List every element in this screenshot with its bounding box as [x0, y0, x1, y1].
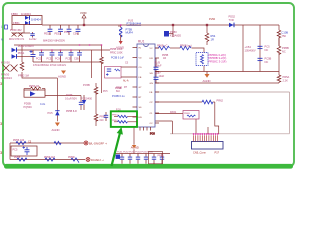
wire right bottom bus [155, 71, 279, 73]
svg-text:684/250V 684/250V: 684/250V 684/250V [43, 40, 65, 43]
connector via dots [193, 133, 219, 135]
wire pr54 top [206, 25, 208, 33]
node J1 [83, 24, 85, 26]
diode PD50 [12, 48, 18, 53]
wire pr62 step drop [215, 102, 219, 134]
border bottom band [4, 164, 293, 169]
svg-text:PC61 PC62 PC63 PC64 PC65 PC66: PC61 PC62 PC63 PC64 PC65 PC66 [117, 152, 154, 154]
ground AGND lower-left [52, 123, 60, 132]
svg-text:P1?: P1? [215, 151, 220, 155]
svg-text:NC: NC [282, 49, 286, 53]
wire transformer top [118, 25, 120, 27]
wire ic right caps vert [155, 58, 157, 67]
wire left vertical [21, 45, 23, 62]
svg-text:PR58: PR58 [14, 156, 21, 159]
svg-text:PE53: PE53 [55, 33, 62, 36]
capacitor PC60 square [116, 155, 120, 159]
wire ic right rail y92 [155, 91, 290, 93]
diode D51 [25, 21, 30, 25]
svg-text:1N4003: 1N4003 [21, 12, 31, 16]
diode D50 [25, 16, 30, 20]
resistor PR54 vertical [205, 33, 209, 41]
IC right pins [155, 48, 159, 123]
svg-text:PC54: PC54 [55, 57, 62, 60]
svg-text:2.2K: 2.2K [283, 78, 289, 82]
svg-text:PD50 1N4007: PD50 1N4007 [18, 44, 35, 48]
resistor PR5C vertical [277, 46, 281, 54]
svg-text:1u/2kv: 1u/2kv [29, 38, 37, 41]
wire top rail right corner down [278, 25, 280, 30]
resistor PR55 vertical [94, 87, 98, 94]
svg-text:PQ50: PQ50 [170, 30, 177, 34]
svg-text:1N5404: 1N5404 [31, 17, 41, 21]
svg-text:PC53: PC53 [47, 57, 54, 60]
svg-text:EN: EN [139, 117, 142, 119]
electrolytic box PC5x [11, 146, 37, 156]
svg-text:PC50 452: PC50 452 [10, 28, 22, 32]
svg-text:SN: SN [150, 73, 153, 75]
wire stub x208 [207, 127, 209, 134]
connector CN51 body [192, 142, 224, 150]
svg-text:100uF: 100uF [155, 64, 163, 67]
IC left pin labels column [103, 63, 129, 94]
svg-text:VD: VD [139, 58, 142, 60]
net DC/ADJ [86, 158, 104, 163]
wire block bottom edge [170, 133, 290, 135]
svg-text:PC55: PC55 [66, 57, 73, 60]
wire pr54 bottom [206, 41, 208, 45]
wire x60 down [56, 78, 58, 111]
svg-text:C5B: C5B [74, 57, 79, 60]
varistor MOV X symbol [3, 65, 18, 72]
diode PD6 [82, 100, 86, 104]
capacitor PC59 [154, 77, 159, 79]
svg-text:PD5B: PD5B [24, 102, 31, 106]
svg-text:PC6: PC6 [150, 133, 155, 136]
capacitor PC50 plus [30, 50, 36, 62]
svg-text:+C54: +C54 [245, 45, 252, 49]
svg-text:610: 610 [100, 119, 105, 122]
capacitor PC58 [258, 58, 263, 60]
wire ic caps bottom [155, 79, 157, 83]
wire x84 below diode [83, 104, 85, 110]
wire box top left [24, 88, 31, 90]
svg-text:PC52: PC52 [36, 57, 43, 60]
wire cap row top [17, 49, 110, 51]
svg-text:VC50: VC50 [80, 11, 87, 15]
svg-text:MOV50: MOV50 [1, 61, 10, 65]
transformer PT50 [119, 24, 123, 44]
wire pr68 stub down [195, 119, 197, 134]
svg-text:1R: 1R [163, 57, 166, 60]
wire x60 to agnd [56, 115, 58, 121]
resistor PR5A vertical [277, 75, 281, 82]
bottom capacitor bank [120, 154, 164, 164]
svg-text:AL-A: AL-A [123, 80, 129, 83]
wire right vertical x248 [259, 25, 261, 72]
wire row1 left vert [9, 143, 11, 160]
svg-text:CS: CS [125, 63, 129, 65]
svg-text:PC5: PC5 [13, 149, 18, 152]
capacitor PCM1 [30, 32, 34, 38]
box PR6B bottom [149, 152, 163, 164]
svg-text:750: 750 [282, 34, 287, 38]
svg-text:PL50: PL50 [209, 17, 216, 21]
svg-text:PR6B +C: PR6B +C [157, 44, 168, 47]
svg-text:10uF: 10uF [159, 75, 165, 78]
svg-text:PR62: PR62 [217, 99, 224, 103]
resistor PR5B vertical [277, 30, 281, 38]
svg-text:1R: 1R [211, 37, 214, 41]
wire right vertical x261 [278, 38, 280, 46]
svg-text:CN5_Conn: CN5_Conn [193, 151, 206, 155]
wire pr5a top stub [278, 53, 280, 72]
node J2 [172, 24, 174, 26]
wire mov bus [12, 32, 30, 34]
wire x84 vert [83, 95, 85, 100]
svg-text:0.1uF/50V: 0.1uF/50V [65, 96, 77, 100]
svg-text:PC5B 0.1uF: PC5B 0.1uF [111, 57, 125, 60]
svg-text:MUR4: MUR4 [126, 31, 134, 35]
svg-text:PR5B: PR5B [116, 88, 122, 90]
wire x91 vert [91, 50, 93, 78]
wire between resistors y48 [170, 47, 180, 49]
capacitor row B on bus [39, 50, 82, 62]
svg-text:MOV-07D 471: MOV-07D 471 [9, 38, 25, 41]
svg-text:B/L-ON/OFF ⊣: B/L-ON/OFF ⊣ [89, 142, 108, 146]
svg-text:VC: VC [150, 48, 153, 50]
resistor PR60 horizontal [159, 46, 170, 50]
node J3 [206, 24, 208, 26]
diode PU5 [55, 111, 59, 116]
resistor PR57 row1 [54, 141, 61, 144]
wire mosfet drain [172, 25, 174, 31]
wire x96 low [95, 120, 97, 126]
svg-text:NC: NC [265, 48, 269, 52]
svg-text:FB50: FB50 [11, 12, 18, 16]
ground AGND mid-right [203, 72, 211, 84]
label cap row B names [36, 57, 79, 60]
svg-text:PR64: PR64 [112, 120, 118, 122]
svg-text:PC5: PC5 [103, 91, 108, 93]
svg-text:GN: GN [150, 83, 154, 85]
svg-text:PD51: PD51 [18, 51, 25, 55]
IC bottom pins [140, 127, 151, 131]
wire cap row bottom [33, 61, 101, 63]
label cap row A names [44, 31, 78, 35]
thyristor box PQ50C [24, 90, 45, 97]
resistor PR6B vertical [94, 114, 98, 121]
green arrow [110, 127, 123, 166]
node dots row B [41, 49, 72, 50]
svg-text:PR52 1M: PR52 1M [18, 74, 29, 78]
svg-text:PC6B 0.1u: PC6B 0.1u [112, 94, 125, 98]
wire x45 top stub [44, 89, 46, 91]
node dot x101 [101, 44, 102, 45]
svg-text:471KD24: 471KD24 [1, 76, 12, 80]
wire box mid drop [23, 25, 25, 34]
svg-text:NC: NC [265, 60, 269, 64]
power arrow ic bottom [132, 145, 137, 148]
diode PD51 [12, 54, 18, 59]
capacitor PLB [154, 67, 159, 69]
svg-text:CP: CP [150, 102, 154, 104]
svg-text:470nF/250VAC 470nF 103/1kV: 470nF/250VAC 470nF 103/1kV [33, 64, 66, 67]
highlight box green [111, 111, 137, 127]
wire ic pin y123 [155, 120, 172, 122]
resistor PR61 horizontal [180, 46, 191, 50]
wire ic pin resistor pr62 run [155, 101, 202, 103]
svg-text:105/400V: 105/400V [245, 48, 256, 52]
snubber box dashed [196, 53, 208, 66]
svg-text:PR59 4k7: PR59 4k7 [44, 156, 56, 159]
wire cap row right vert [101, 45, 103, 57]
wire box left stub [23, 89, 25, 91]
box PR68 [183, 111, 199, 120]
wire ic right rail y83 [155, 82, 279, 84]
capacitor PD6B [104, 112, 108, 121]
wire row2 bottom left [10, 159, 85, 161]
resistor PR53 horizontal lower-left [31, 87, 42, 90]
svg-text:PCM: PCM [64, 31, 69, 34]
wire main top rail [42, 24, 279, 26]
svg-text:PR6B: PR6B [158, 156, 164, 158]
svg-text:PR5C 100K: PR5C 100K [110, 51, 123, 54]
wire bottom cap bus top [114, 153, 170, 155]
connector pins [194, 135, 218, 141]
resistor PR63 in green box [114, 115, 137, 117]
wire right vertical x237 [242, 25, 244, 72]
capacitor PC57 [258, 46, 263, 48]
svg-text:C10B: C10B [282, 31, 289, 35]
svg-text:AGND: AGND [203, 79, 211, 83]
wire x76 low [80, 105, 82, 110]
resistor PR59 row2 [45, 158, 55, 161]
svg-text:PR56 100: PR56 100 [13, 139, 25, 142]
wire input bus A [14, 44, 102, 46]
varistor cross A [12, 33, 17, 37]
svg-text:TVR: TVR [229, 18, 234, 22]
capacitor row A under rail [48, 25, 81, 35]
varistor cross B [18, 33, 23, 37]
svg-text:PR5B 8-R: PR5B 8-R [66, 110, 77, 113]
wire dashed box down [203, 66, 205, 72]
power VCC arrow [80, 11, 87, 18]
svg-text:PU5: PU5 [48, 111, 54, 115]
wire ic bottom agnd low [133, 149, 135, 153]
IC inner pin labels [139, 48, 154, 126]
svg-text:RU1: RU1 [138, 40, 145, 44]
svg-text:PR6B: PR6B [184, 113, 190, 115]
svg-text:AGND: AGND [52, 128, 60, 132]
snubber pink box left of IC [105, 67, 122, 79]
wire x76 cap branch [45, 95, 81, 97]
svg-text:PR5A: PR5A [283, 75, 290, 79]
wire vcc drop [83, 18, 85, 25]
wire ic bottom agnd drop [133, 127, 135, 145]
wire y121 corner down [171, 121, 173, 134]
wire box left drop [11, 25, 13, 31]
resistor PR58 row2 [17, 158, 27, 161]
wire pinkbox to pin 77 [121, 76, 133, 78]
wire pr62 right [213, 101, 215, 103]
svg-text:K10A60D: K10A60D [170, 33, 181, 37]
wire box top right [42, 88, 45, 90]
ground AGND left [58, 71, 66, 79]
svg-text:PJ52/400: PJ52/400 [81, 97, 93, 101]
resistor PR56 row1 [16, 141, 26, 144]
resistor PR62 horizontal [202, 100, 213, 104]
wire pr5a bottom stub [278, 72, 280, 76]
svg-text:AGND: AGND [58, 75, 66, 79]
resistor PR52 vertical [20, 62, 24, 70]
svg-text:PR6B (ac): PR6B (ac) [180, 44, 192, 47]
svg-text:N: N [1, 39, 3, 42]
node dot busA mid [89, 44, 90, 45]
svg-text:C-6L: C-6L [40, 103, 46, 106]
svg-text:DC/ADJ ⊣: DC/ADJ ⊣ [91, 158, 104, 162]
capacitor PC56 [79, 102, 83, 104]
svg-text:PR53 1R: PR53 1R [29, 85, 39, 88]
IC left pins [133, 48, 138, 118]
svg-text:PU3: PU3 [128, 18, 134, 22]
svg-text:PR5D: PR5D [68, 156, 75, 159]
svg-text:PQ50C: PQ50C [24, 105, 33, 109]
mosfet PQ50 [164, 31, 173, 37]
wire ic resistors y48 [155, 47, 159, 49]
svg-text:PR5B: PR5B [282, 46, 289, 50]
wire y48 to box [192, 48, 205, 53]
wire pr5b mid stub [278, 38, 280, 47]
wire x101 below resistor [101, 63, 103, 93]
wire pinkbox to pin 67 [121, 66, 133, 68]
node dot busA left [79, 44, 80, 45]
border frame [3, 3, 294, 167]
wire ic caps mid [155, 69, 157, 77]
resistor PR64 in green box [114, 121, 137, 123]
connector P50 [5, 25, 8, 29]
wire pr52 bottom [22, 72, 57, 78]
svg-text:CS: CS [139, 67, 143, 69]
svg-text:DR: DR [150, 58, 154, 60]
wire row1 bottom left [10, 142, 84, 144]
net B/L ON-OFF [84, 141, 108, 146]
wire block right edge [289, 92, 291, 134]
svg-text:FB51: FB51 [13, 21, 20, 25]
svg-text:C5A: C5A [73, 33, 78, 36]
wire ic pin y113 [155, 113, 183, 115]
svg-text:PE52: PE52 [44, 33, 51, 36]
resistor PR5x on x101 [100, 57, 104, 64]
input filter box [12, 16, 42, 25]
svg-text:PR58C 3-2(F): PR58C 3-2(F) [209, 59, 227, 63]
svg-text:RA51: RA51 [170, 111, 177, 114]
wire x96 mid [95, 93, 97, 114]
wire x96 branch [95, 83, 97, 87]
svg-text:PC5B: PC5B [83, 83, 90, 87]
svg-text:R54: R54 [211, 34, 216, 38]
resistor PR5D row2 [71, 158, 79, 163]
svg-text:PR63: PR63 [112, 115, 118, 117]
diode PD52 on rail [229, 23, 235, 28]
op-amp IC RU1 body [137, 44, 155, 127]
